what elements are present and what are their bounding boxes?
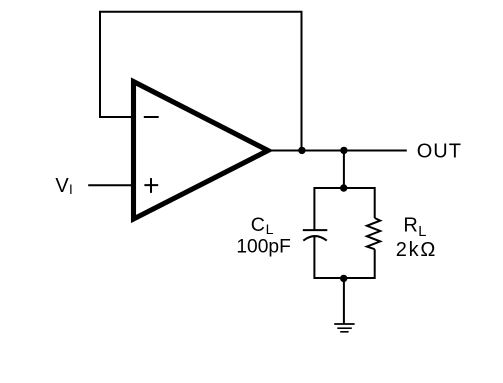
svg-text:R: R	[403, 215, 417, 237]
svg-text:100pF: 100pF	[236, 237, 290, 258]
svg-text:V: V	[55, 175, 69, 197]
svg-text:L: L	[266, 222, 274, 238]
svg-text:2kΩ: 2kΩ	[396, 239, 437, 261]
svg-text:C: C	[251, 214, 265, 236]
svg-text:I: I	[69, 182, 73, 197]
svg-text:OUT: OUT	[417, 141, 462, 163]
svg-text:L: L	[418, 224, 426, 240]
